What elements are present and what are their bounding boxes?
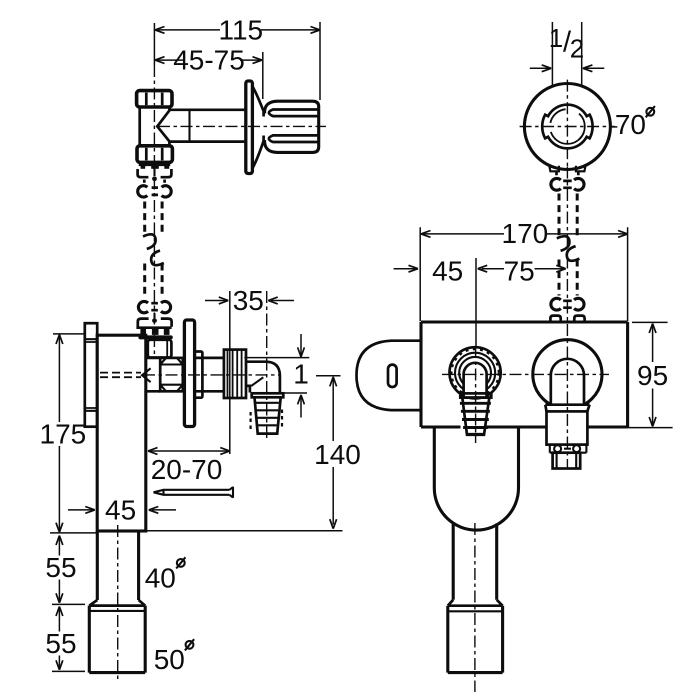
- dimension 175: [53, 333, 85, 335]
- clamp center bars: [152, 188, 158, 195]
- svg-text:115: 115: [218, 15, 263, 46]
- fitting stem and dot: [153, 166, 155, 176]
- svg-text:75: 75: [504, 256, 535, 287]
- 140 top extension line: [316, 375, 341, 377]
- svg-text:45: 45: [432, 256, 463, 287]
- tick at body bottom: [50, 532, 96, 534]
- 140 bottom extension line: [146, 530, 343, 532]
- tabs under circle: [549, 165, 559, 171]
- knob arch white fill: [464, 363, 487, 398]
- seat cone inside body: [142, 368, 151, 382]
- lower fitting teeth: [140, 329, 146, 335]
- lower fitting clamp C right: [161, 301, 171, 312]
- svg-text:95: 95: [637, 360, 668, 391]
- barb side ticks: [251, 410, 282, 430]
- pipe centerline horizontal: [158, 125, 326, 127]
- hose clamp C row top right: [551, 178, 561, 190]
- barb flange front: [460, 393, 491, 397]
- dimension 45 front: [394, 268, 416, 270]
- hose break symbol upper: [143, 234, 156, 249]
- inner thin arcs: [579, 114, 585, 140]
- threaded tip: [553, 453, 581, 469]
- valve centerline vertical: [153, 23, 155, 65]
- U siphon housing: [434, 427, 518, 488]
- dimension 35: [205, 300, 294, 302]
- body front: [421, 322, 628, 427]
- valve bottom hex nut: [137, 146, 172, 163]
- hose break symbol lower: [151, 251, 164, 266]
- dimension 55 upper: [56, 536, 63, 546]
- fitting below valve: compression bar: [139, 163, 170, 166]
- elbow: [246, 362, 280, 394]
- ball ring: [550, 445, 587, 453]
- svg-text:175: 175: [40, 419, 87, 450]
- lower fitting brackets: [138, 319, 149, 327]
- barb flange side: [252, 393, 284, 397]
- fitting brackets: [138, 169, 149, 177]
- lower fitting bar line: [136, 326, 171, 329]
- dimension 1/2 arrows: [530, 67, 605, 69]
- knob front rings: [450, 347, 501, 398]
- dimension 140: [330, 377, 337, 387]
- svg-text:35: 35: [233, 285, 264, 316]
- right outlet circle: [533, 340, 602, 409]
- front vertical centerline right: [566, 167, 568, 470]
- sleeve 50: [89, 600, 145, 606]
- lower fitting stem and dot: [153, 313, 155, 318]
- nail symbol: [154, 487, 234, 498]
- knob groove top pair: [269, 110, 319, 117]
- 170 extension lines: [420, 227, 627, 321]
- hose break right lower: [567, 246, 580, 261]
- fitting ticks: [144, 180, 164, 183]
- front horizontal centerline: [442, 373, 609, 375]
- unit outlet pipe: [146, 358, 224, 391]
- barb cone side: [255, 397, 281, 433]
- dimension 1: [300, 334, 302, 418]
- lower fitting clamp C left: [138, 301, 148, 312]
- valve funnel seat: [157, 110, 170, 142]
- dimension 170: [421, 233, 628, 235]
- svg-text:70: 70: [615, 109, 646, 140]
- svg-text:2: 2: [570, 34, 584, 64]
- flexible hose left dashes: [145, 202, 162, 295]
- dimension 1/2 extension lines: [552, 22, 581, 87]
- svg-text:170: 170: [502, 218, 549, 249]
- knob groove bottom pair: [269, 135, 319, 142]
- svg-text:20-70: 20-70: [151, 454, 223, 485]
- right arch outline: [551, 359, 584, 405]
- tap knob side view: [265, 101, 319, 152]
- ribbed hose nut: [224, 350, 246, 398]
- tab slot: [388, 365, 397, 387]
- siphon sleeve: [448, 600, 503, 606]
- hose union box: [148, 340, 172, 358]
- svg-text:1: 1: [549, 23, 563, 53]
- dimension 75: [478, 265, 488, 272]
- outlet body rect: [547, 411, 588, 444]
- outlet pipe centerline: [143, 374, 281, 376]
- barb centerline / 35 right extension: [266, 291, 268, 442]
- outer circle 70: [524, 84, 610, 170]
- unit body: [97, 335, 146, 531]
- svg-text:55: 55: [45, 552, 76, 583]
- wall plate: [85, 323, 97, 427]
- siphon centerline: [474, 523, 476, 692]
- 35 left extension line: [229, 291, 231, 454]
- knob arch outline: [464, 363, 487, 398]
- dimension 55 lower: [56, 607, 63, 617]
- flange bell cone: [253, 87, 264, 169]
- retaining ring: [195, 352, 203, 398]
- hose feet on body top: [550, 316, 560, 321]
- pipe joint line: [188, 110, 190, 142]
- dimension 45-75 line: [155, 59, 262, 61]
- barb bands front: [460, 403, 491, 434]
- valve body: [140, 107, 170, 146]
- pipes centerline: [117, 525, 119, 681]
- dimension 95: [622, 322, 673, 427]
- lower fitting flange bar: [138, 335, 172, 339]
- left mounting tab: [357, 341, 422, 410]
- wall flange disc: [246, 81, 253, 174]
- dimension 20-70: [148, 450, 230, 452]
- fitting teeth: [141, 166, 146, 169]
- inner knob with side tabs: [542, 105, 592, 149]
- hose clamp C left: [138, 186, 148, 197]
- knob centerline: [475, 346, 477, 443]
- drain pipe 40: [97, 531, 138, 600]
- svg-text:1: 1: [293, 359, 309, 390]
- hose clamp C row above body: [551, 298, 561, 310]
- wall escutcheon flange: [184, 320, 194, 427]
- right arch white fill: [551, 359, 584, 405]
- siphon drain pipe: [453, 524, 497, 600]
- hidden inlet dashes inside body: [100, 373, 141, 378]
- hose clamp C right: [162, 186, 172, 197]
- svg-text:55: 55: [45, 628, 76, 659]
- pipe to wall: [169, 110, 245, 142]
- dimension 45 side: [68, 509, 176, 511]
- lower clamp center bars: [151, 303, 158, 310]
- svg-text:50: 50: [154, 644, 185, 675]
- pipe nut with chamfers: [160, 358, 183, 391]
- crosshair centerlines: [520, 126, 615, 128]
- svg-text:140: 140: [314, 439, 361, 470]
- outlet trapezoid: [545, 405, 589, 412]
- flexible hose right dashes: [559, 194, 577, 296]
- extension line right of 115: [319, 22, 321, 100]
- label 70 diameter: [610, 126, 618, 128]
- 75 extension line: [475, 258, 477, 346]
- extension line right of 45-75: [262, 52, 264, 99]
- svg-text:45-75: 45-75: [173, 45, 245, 76]
- barb cone front: [462, 398, 489, 435]
- svg-text:45: 45: [105, 495, 136, 526]
- dimension 115 line: [155, 29, 320, 31]
- hose break right upper: [557, 236, 570, 251]
- valve top hex nut: [137, 91, 172, 107]
- svg-text:40: 40: [145, 563, 176, 594]
